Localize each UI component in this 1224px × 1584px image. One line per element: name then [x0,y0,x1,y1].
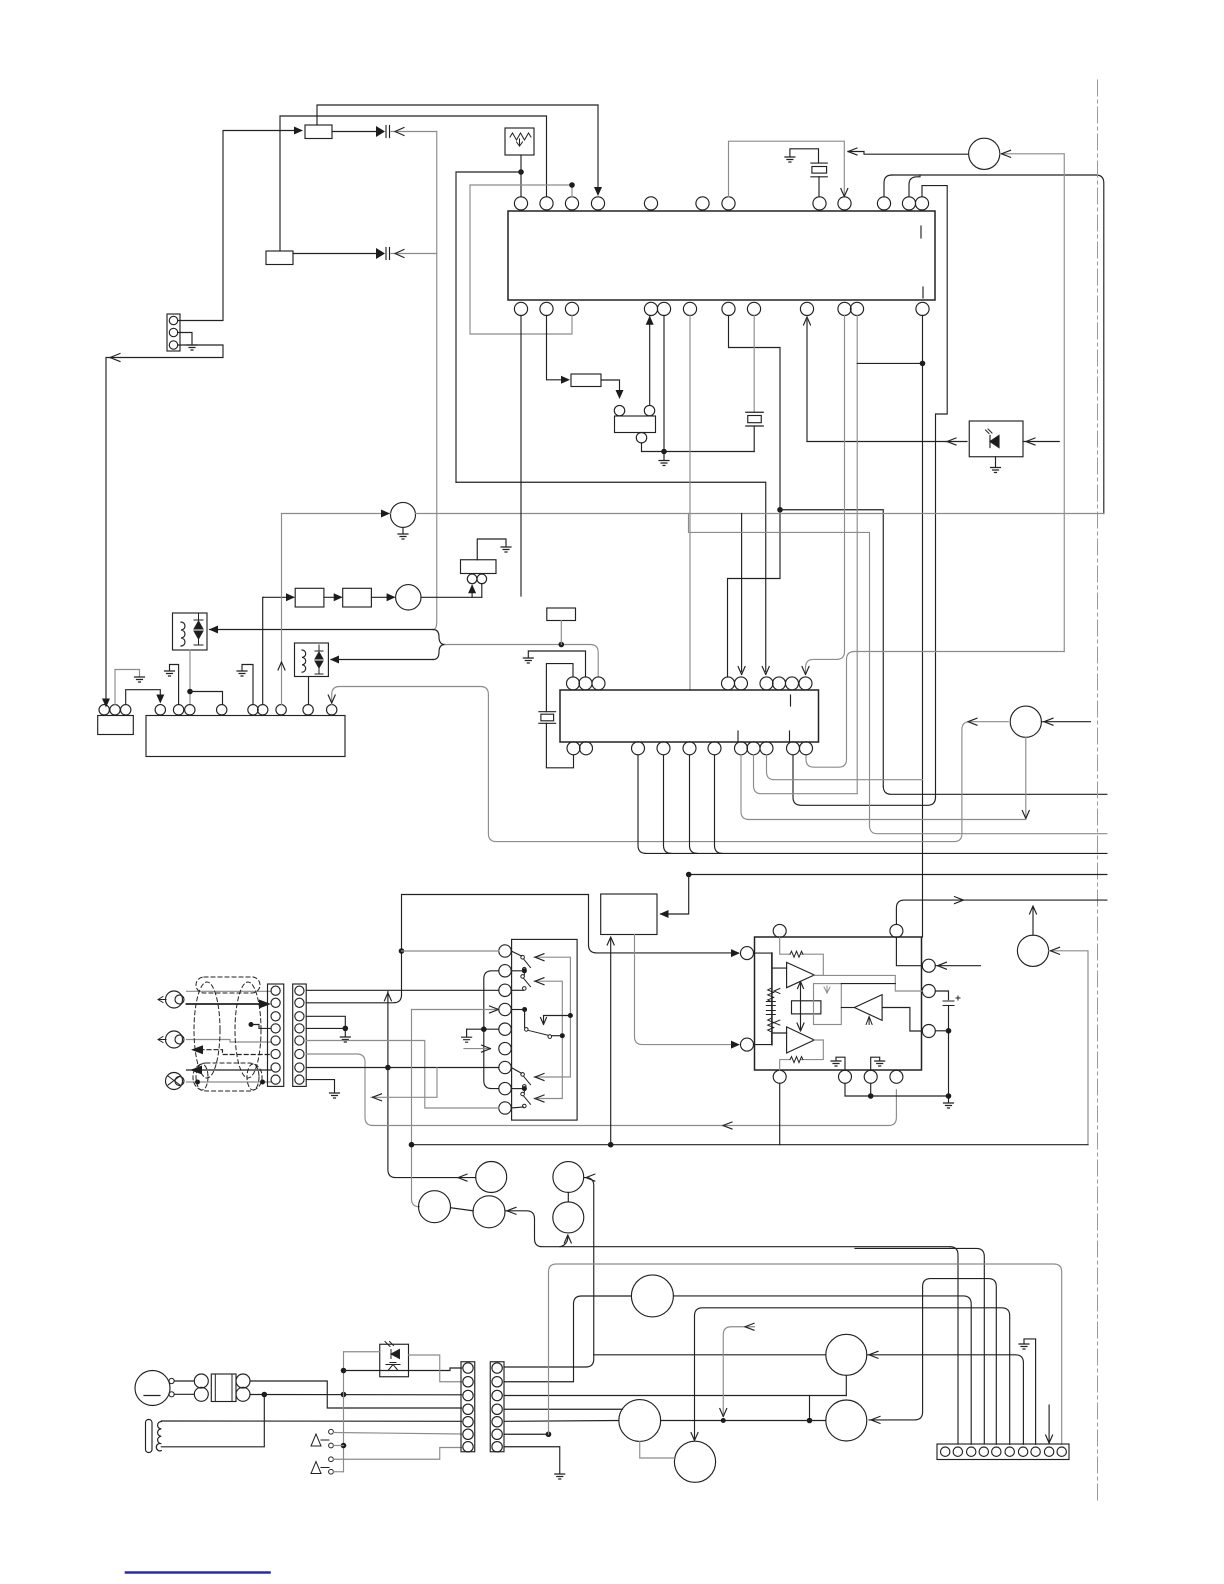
wire Q5 up arrow [1032,908,1034,936]
switch pin c7 [499,1061,511,1073]
switch pin c2 [499,965,511,977]
opamp right pin 1031 [922,1025,935,1038]
transistor Q3 [396,585,421,610]
crystal X3 loop bottom [546,723,573,768]
opamp bottom pin 896 [890,1070,903,1083]
arrowhead into box V [561,376,570,384]
connector block1 [268,984,284,1086]
IC2 body [560,690,819,742]
feedback resistor1 [790,951,803,957]
crystal X1 plates [811,163,827,177]
arrowhead into opamp pin [731,949,740,957]
wire stub x723 [723,1327,754,1415]
wire c6 stub arrow [464,1048,489,1050]
IC1 top pin 884 [877,197,890,210]
CN2 pin5 [492,1417,502,1427]
wire CN2 pin2 to circle F [504,1296,631,1382]
IC2 bottom pin 573.5 [567,742,580,755]
IC2 inner tick2 [737,731,739,741]
diode D2 bars [385,248,387,260]
arrowhead left into QB [507,1207,516,1214]
opamp right pin 991 [922,985,935,998]
sw1 contact a [521,955,525,959]
wire arrow into IC1 pin598 [597,105,599,195]
switch pin c6 [499,1042,511,1054]
wire vertical x388 [388,992,476,1178]
resistor box A [305,125,332,139]
control rect arrow [824,986,830,993]
arrowhead into L1 [209,626,218,634]
wire gray out1 [814,975,922,991]
cable shield bottom dashed [193,1063,262,1091]
node dot 561,644 [559,642,565,648]
long conn pin 281 [276,705,286,715]
IC2 top pin 573 [567,677,580,690]
ground [944,1103,954,1108]
wire opto right step [409,1355,462,1382]
wire conn pin6 to QG [695,1308,1010,1445]
wire c7 to sw7 [511,1068,521,1074]
wire QC in from riser [504,1178,594,1367]
wire diode1 arrow [391,131,437,133]
ground [330,1093,340,1098]
block2 pin5 [295,1036,304,1045]
wire block2 pin3 ground jog [306,1016,345,1028]
arrowhead left filled [191,1045,203,1054]
arrowhead left into sw1 [535,954,544,961]
opamp right pin 965 [922,959,935,972]
feedback resistor3 [790,1057,803,1063]
wire dot down-left to IC2 pin728 [728,510,781,677]
IC1 bottom pin 922.5 [916,302,929,315]
power switch contact1 [329,1429,334,1434]
ground c5 [462,1029,472,1042]
wire IC2 pin714 drop [715,755,723,854]
switch pin c9 [499,1102,511,1114]
IR ground [991,457,1001,473]
transistor QF [631,1275,673,1317]
cap stem [948,1006,950,1103]
wire CN2 pin4 to QI [504,1408,623,1410]
wire Q4 down gray [1025,737,1027,817]
filter ground bracket [477,539,506,560]
wire branch down to J line [809,1396,811,1421]
wire gray dot to c1 [402,950,499,952]
wire branch H bottom [845,1375,847,1395]
wire boxV out [601,380,620,396]
wire block2 pin4 [306,1027,345,1029]
wire right pin1031 [935,1030,948,1032]
ground [135,677,145,682]
wire conn pin5 loop to QJ [869,1279,996,1445]
sw8 contact b [523,1104,527,1108]
arrowhead down [616,390,624,399]
cable end ellipse2 [247,1064,259,1090]
wire transformer top [161,1420,461,1422]
filter pin d [236,1387,250,1401]
switch actuator triangle2 [311,1462,329,1474]
wire gray vertical from diodes [433,132,437,630]
arrowhead up [1030,906,1037,914]
node dot J line [807,1418,813,1424]
wire gray jog to busA riser [371,1068,437,1098]
cable shield ellipse 1 [194,982,220,1078]
arrowhead right into c4 [490,1006,499,1013]
switch actuator triangle1 [311,1434,329,1446]
arrowhead into Q1 [1002,150,1011,157]
long connector box [146,716,345,757]
ground [875,1061,885,1066]
IR diode arrows [986,429,993,434]
ground bracket crystal [790,149,819,163]
opamp1 triangle [787,962,815,987]
wire top pin922 to jog [922,186,947,798]
IC1 top pin 521 [514,197,527,210]
Q2 ground [398,527,408,539]
block2 pin2 [295,998,304,1007]
L1 stem down [189,650,191,705]
wire dot to right edge bus y794 [780,510,883,787]
ground [165,671,175,676]
sw2 contact a [521,975,525,979]
arrowhead [395,128,404,136]
sw7 contact a [521,1073,525,1077]
wire dot2 riser to box [610,939,612,1145]
arrowhead left into QC [586,1174,595,1181]
brace merge symbol [433,630,445,660]
arrowhead down into small conn [102,699,110,708]
block1 pin3 [271,1012,280,1021]
arrowhead into Q2 [381,510,390,518]
transformer core [146,1420,153,1453]
strip pin10 [1057,1447,1066,1456]
long conn pin 178 [173,705,183,715]
wire contact4 [333,1471,343,1473]
block1 pin4 [271,1024,280,1033]
wire J1 top gray [187,990,272,992]
wire into L1 arrow [210,629,434,631]
VR bottom stem [641,443,643,452]
wire contact3 step to con1 pin7 [333,1448,461,1460]
long conn pin 190 [185,705,195,715]
wire CN2 pin1 riser (drawn with QC) [503,1366,506,1368]
transistor QD [553,1202,584,1233]
wire QH right from conn pin7 [867,1355,1024,1445]
wire J3 gray [187,1081,272,1083]
arrowhead into Q4 [1044,718,1053,725]
wire pin922 long vertical [922,316,924,938]
IC1 top pin 546.5 [540,197,553,210]
transistor QI [619,1400,661,1442]
arrowhead left into sw7 [535,1074,544,1081]
IR diode symbol [990,436,999,448]
arrowhead into IC2 pin 766.5 [762,667,769,675]
arrowhead up into QD [564,1235,571,1243]
node dot [195,1080,200,1085]
IC2 top pin 585.5 [579,677,592,690]
crystal X1 body [812,167,827,174]
resistor R1 [295,588,324,607]
CN1 pin2 [463,1377,473,1387]
node dot busB left [409,1142,415,1148]
small conn pin1 [99,705,109,715]
connector CN2 [490,1362,504,1452]
wire CN3 pin3 long run left-down [106,345,223,706]
diode D1 bars [385,126,387,138]
block2 pin4 [295,1024,304,1033]
wire down to IC2 pin793 [793,755,936,805]
wire pin844 gray down [806,316,845,673]
wire arrow up to filter pin1 [471,586,473,598]
wire c1 to sw1 [511,951,521,956]
RCA jack J2 outer [166,1031,183,1048]
IC2 bottom pin 586 [580,742,593,755]
wire pin8 ground [1024,1339,1036,1444]
node dot thermistor [518,169,524,175]
RCA jack J2 inner [175,1035,184,1044]
sw1 contact b [523,967,527,971]
IC2 bottom pin 638 [632,742,645,755]
ground bracket pin870 [871,1057,880,1070]
wire y175 to right [892,175,1104,514]
CN2 pin7 [492,1442,502,1452]
wire branch y363 [857,362,922,364]
wire QI bottom step to QG [640,1441,676,1458]
wire QF to conn pin3 [673,1296,971,1444]
block2 pin1 [295,986,304,995]
gray sel loop 1 [534,957,570,1077]
inductor box L1 [173,613,208,650]
node dot sw1 [522,968,527,973]
IC1 bottom pin 651 [644,302,657,315]
mid sw arrow stub [544,1016,570,1024]
wire dashed return [193,1050,271,1055]
node dot sw7 [522,1086,527,1091]
CN1 pin1 [463,1363,473,1373]
arrowhead down on stub [720,1409,727,1417]
transistor QG [674,1441,715,1482]
node dot 948,1030 [946,1028,952,1034]
IC2 top pin 779 [773,677,786,690]
ground under 664 [659,452,669,466]
filter pin c [236,1374,250,1388]
arrowhead left into sw2 [535,978,544,985]
elbow pin909 [909,175,920,197]
arrowhead up mid-wire [278,662,285,670]
bracket resistor bottom [768,1019,774,1032]
crystal X2 plates [746,412,764,426]
wire R2 to Q3 [371,596,394,598]
wire block2 pin8 ground [306,1080,334,1092]
block2 pin7 [295,1063,304,1072]
IC1 inner tick2 [922,287,924,298]
opamp bottom pin 779 [773,1070,786,1083]
transformer coil [156,1422,161,1451]
wire QA-QB [451,1208,474,1211]
arrowhead up [798,982,804,989]
VR block circles top [614,405,624,415]
IC2 inner tick3 [789,731,791,741]
IC1 top pin 572 [565,197,578,210]
switch pin c4 [499,1003,511,1015]
arrowhead into Q5 [1051,947,1060,954]
wire diode2 arrow [391,253,437,255]
wire opto left gray [344,1351,380,1353]
IC1 top pin 819.5 [813,197,826,210]
wire pin281 gray up to Q2 line [281,514,283,705]
filter pin b [194,1387,208,1401]
sw8 lever [524,1096,531,1105]
arrowhead left small1 [774,989,780,994]
wire box arrow riser [661,875,689,915]
strip pin8 [1031,1447,1040,1456]
node dot on bus [481,1026,487,1032]
optocoupler box [380,1344,409,1377]
wire c3 to sw2 [511,989,523,991]
strip pin5 [992,1447,1001,1456]
wire into box A [178,131,296,321]
wire boxA to diode1 [332,131,376,133]
arrowhead up [646,316,654,325]
long conn pin 253 [248,705,258,715]
IC2 bottom pin 689.5 [683,742,696,755]
arrowhead [387,593,396,601]
RCA jack J1 outer [166,991,183,1008]
filter box [461,560,497,574]
ground [501,547,511,552]
IC2 top pin 766.5 [760,677,773,690]
arrowhead left into sw8 [535,1095,544,1102]
arrowhead up into opamp2 [866,1017,872,1025]
wire IR right stub [1023,441,1059,443]
wire c2 to dot [511,970,524,972]
switch pin c1 [499,945,511,957]
wire IC2 pin741 y819 [741,755,1026,820]
resistor R2 [343,588,372,607]
AC plug [135,1371,170,1406]
node dot [868,1093,874,1099]
opto transistor [386,1363,400,1371]
sw2 contact b [523,987,527,991]
arrowhead down into pin844 [841,189,848,197]
node dot 1445 [341,1443,347,1449]
opamp left pin 953 [741,947,754,960]
ground under dot [340,1028,350,1042]
connector block2 [293,984,307,1086]
long conn pin 263 [258,705,268,715]
IC2 bottom pin 741 [735,742,748,755]
crystal X1 loop gray [729,141,845,197]
wire right pin991 cap chain [935,991,948,1000]
IC1 bottom pin 857 [850,302,863,315]
wire J2 gray step [187,1040,272,1043]
L2 zener pair [315,645,323,674]
node dot [249,1022,254,1027]
IR receiver box [969,421,1023,457]
small connector box [98,716,134,735]
audio input box [601,894,657,935]
wire Q5 right loop [1049,951,1088,1145]
arrowhead right filled [259,1000,271,1009]
opamp bottom pin 870 [864,1070,877,1083]
long conn pin 308 [303,705,313,715]
arrowhead left on y357 [110,354,120,362]
bracket c2-c8 [484,971,499,1089]
box W [547,608,576,621]
wire bus 1246 riser pin2 [950,1247,958,1444]
arrowhead up [468,584,476,593]
inductor box L2 [295,643,329,677]
wire c4 arrow from x411 [412,1009,498,1011]
stub pin870 [870,1083,872,1096]
power switch contact4 [329,1469,334,1474]
arrowhead left [373,1094,382,1101]
sw2 lever [524,978,531,987]
IC2 bottom pin 793 [787,742,800,755]
IC1 bottom pin 690 [683,302,696,315]
IC1 bottom pin 754 [747,302,760,315]
thermistor stem [520,155,522,197]
IC1 top pin 909 [902,197,915,210]
node dot 922,363 [920,361,926,367]
node dot c4 [522,1007,527,1012]
wire 1064 left turn to IC2 pin806 [806,652,1064,768]
input bracket vertical [771,953,773,1045]
wire corner to page edge y833 [870,826,1107,834]
node dot 388,1067 [385,1065,391,1071]
wire into QH left [594,1354,826,1356]
bracket cap2 [766,1011,775,1015]
wire AC hot [250,1381,462,1408]
ground [555,1474,565,1479]
transistor QB [473,1196,505,1228]
arrowhead into L2 [330,656,339,664]
CN3 pin3 [169,341,177,349]
arrowhead right into c6 [482,1045,491,1052]
opamp2 triangle left [854,995,882,1021]
wire Q1 right gray [1000,154,1064,652]
transistor Q5 [1017,935,1048,966]
L1 zener pair [194,614,203,645]
strip pin2 [953,1447,962,1456]
IR wire horizontal [807,441,967,443]
wire block2 pin1 to c3 [306,989,499,991]
CN2 pin4 [492,1404,502,1414]
wire step to circle Q1 [848,152,968,155]
bus B [411,1144,1088,1146]
wire to transformer bottom [161,1395,264,1447]
node dot 948,1096 [946,1093,952,1099]
arrowhead left into QJ [871,1416,880,1423]
ground [1019,1344,1029,1349]
IC1 bottom pin 572 [565,302,578,315]
block2 pin8 [295,1075,304,1084]
sw7 contact b [523,1085,527,1089]
wire shield step [251,1025,271,1029]
wire into Q2 gray [282,513,391,515]
IC1 bottom pin 728.5 [722,302,735,315]
strip pin1 [941,1447,950,1456]
power switch contact2 [329,1443,334,1448]
cable shield top dashed [196,977,260,993]
wire y451 crystal2 link [642,451,755,453]
wire block2 pin7 to c7 [306,1067,499,1069]
power switch contact3 [329,1457,334,1462]
arrowhead into IC2 pin805 [802,667,809,675]
small conn pin3 [121,705,131,715]
strip pin9 [1044,1447,1053,1456]
block1 pin2 [271,998,280,1007]
